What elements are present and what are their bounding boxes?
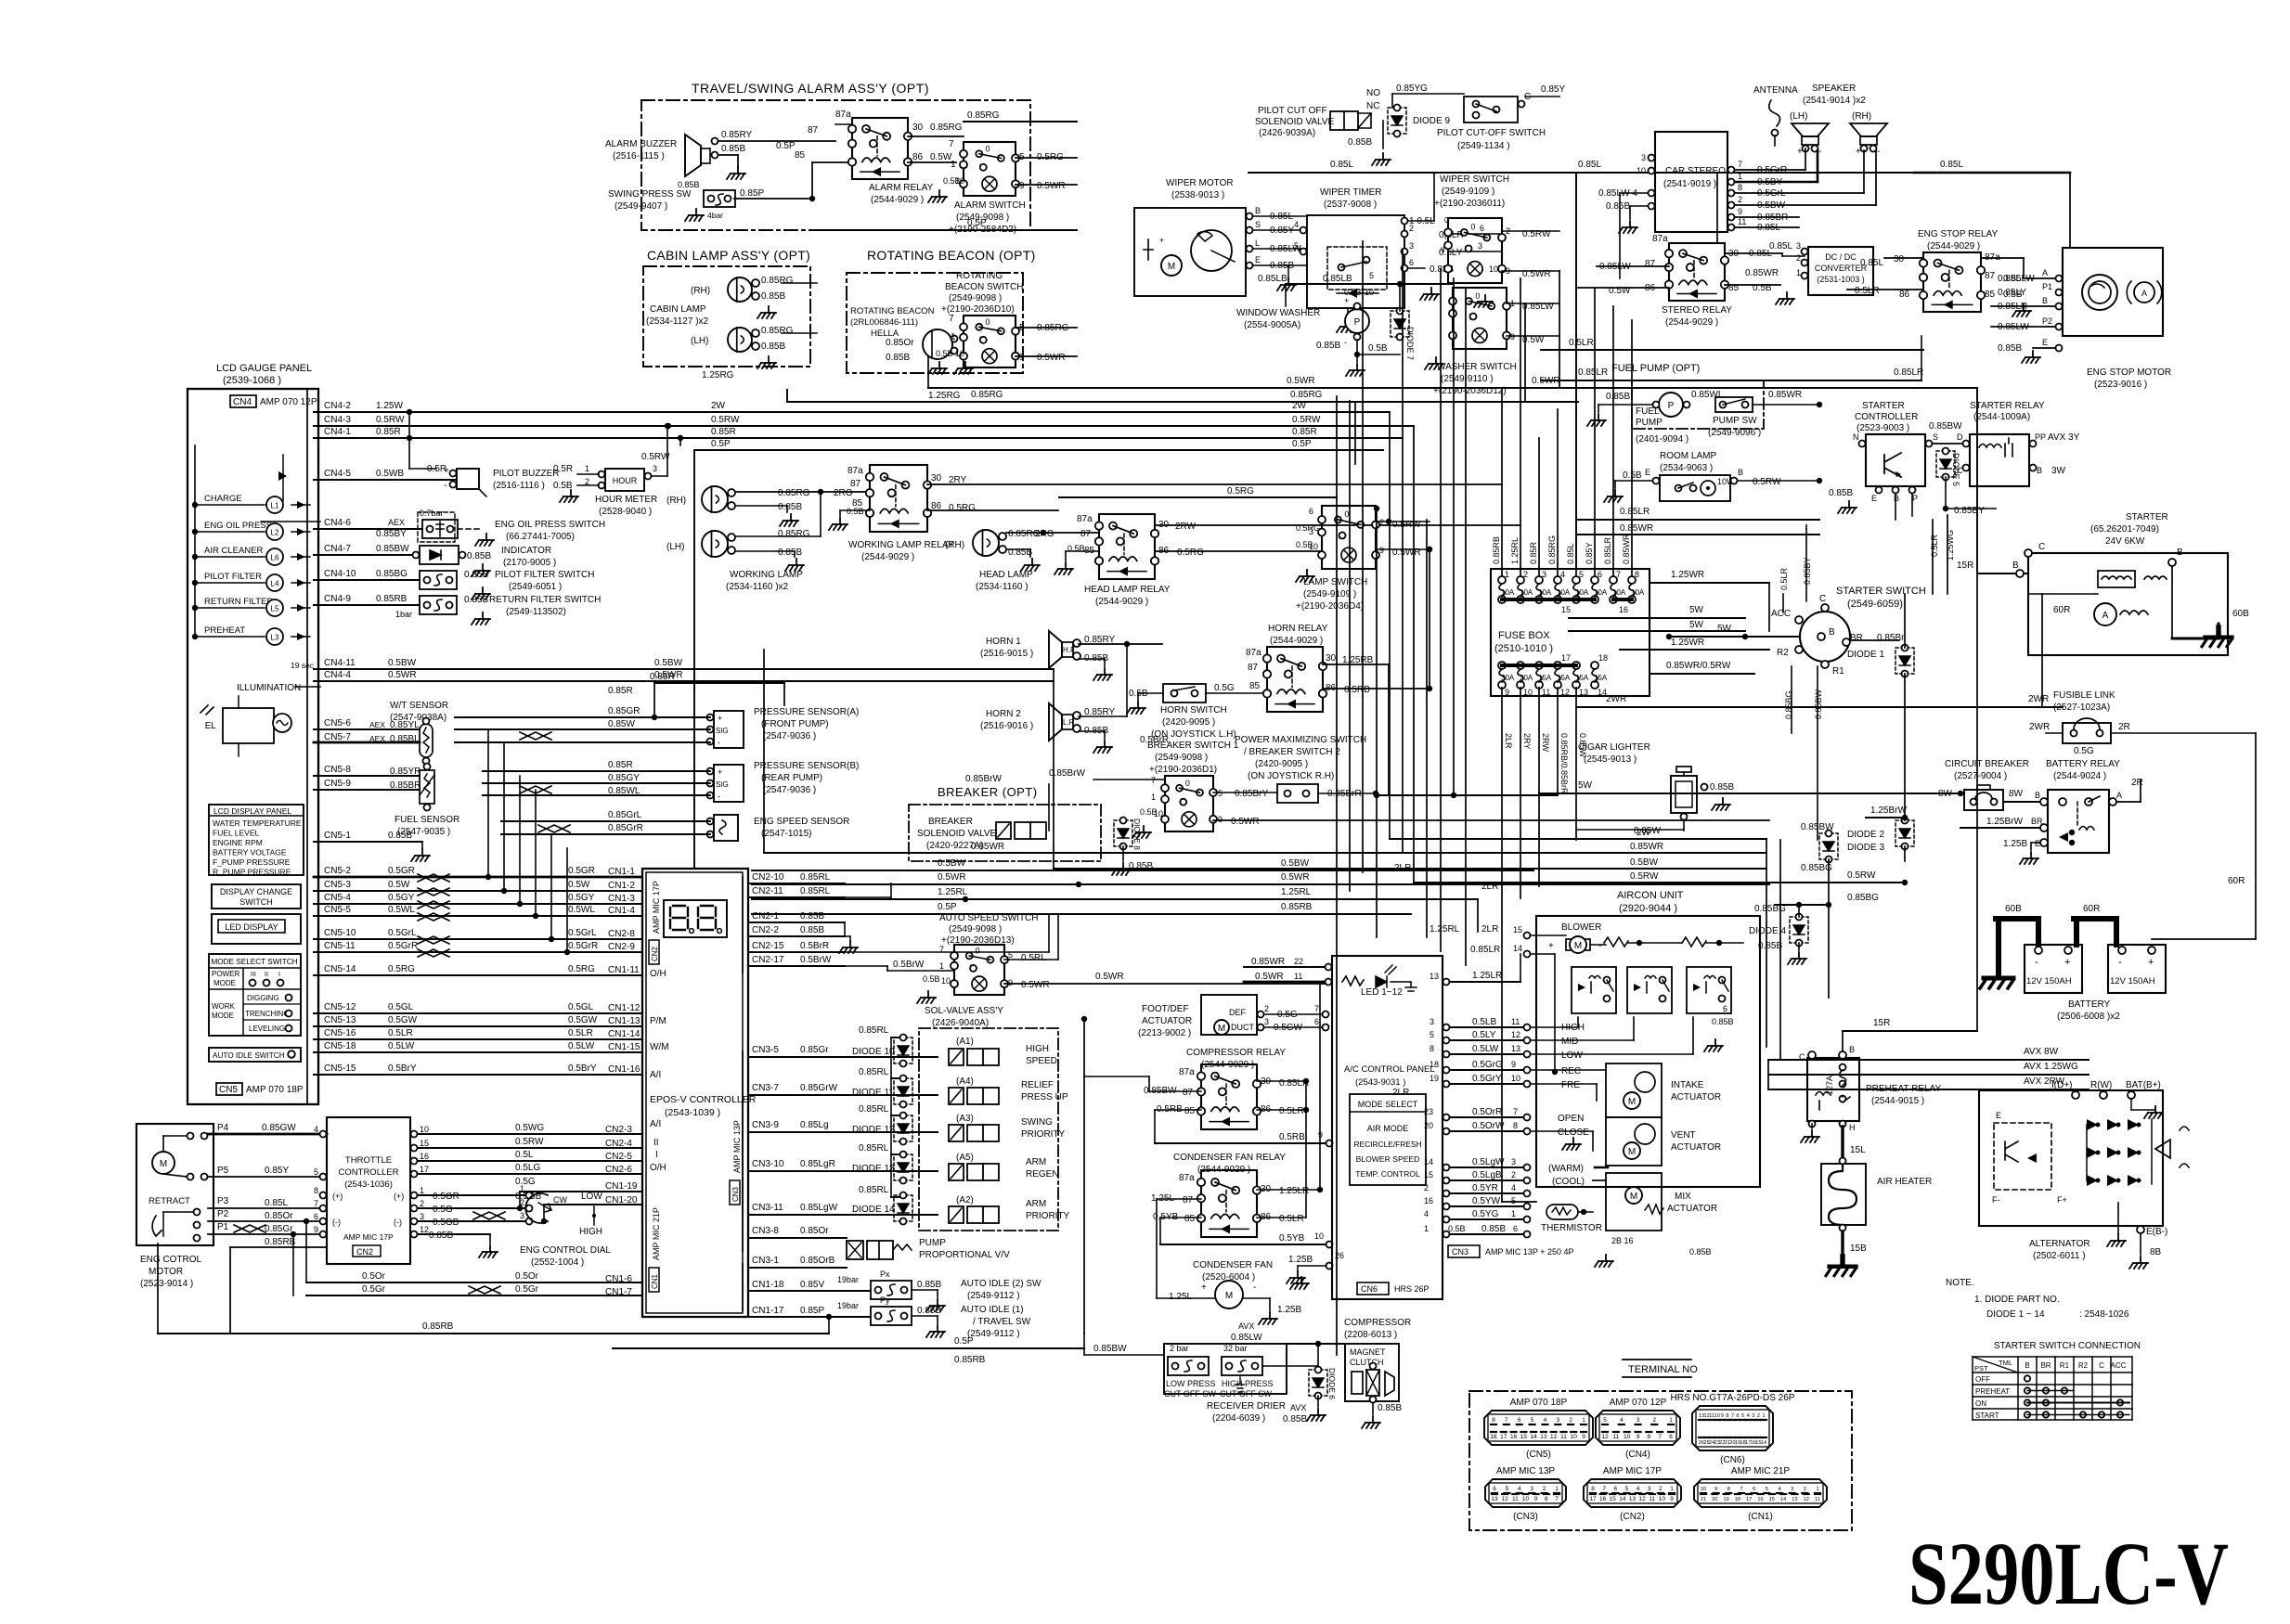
svg-text:CN1-2: CN1-2	[608, 881, 635, 891]
svg-text:17: 17	[420, 1165, 429, 1174]
svg-text:+: +	[1201, 1282, 1207, 1293]
svg-text:60R: 60R	[2053, 605, 2070, 615]
svg-text:0.85L: 0.85L	[1330, 160, 1353, 170]
svg-text:0.5P: 0.5P	[711, 439, 731, 449]
svg-text:16: 16	[1510, 1434, 1518, 1440]
svg-text:CN1-15: CN1-15	[608, 1042, 640, 1052]
svg-text:87a: 87a	[835, 110, 851, 120]
rotating beacon dashed box	[847, 273, 1023, 373]
svg-text:0.5P: 0.5P	[776, 141, 796, 151]
svg-text:CN3-8: CN3-8	[752, 1226, 779, 1236]
svg-text:EL: EL	[205, 721, 217, 731]
svg-text:0.85L: 0.85L	[1998, 274, 2021, 284]
svg-text:E: E	[1255, 255, 1261, 264]
wire 0.85WR/0.5RW	[1650, 673, 1754, 675]
svg-text:8: 8	[1430, 1044, 1434, 1053]
svg-text:(2523-9003 ): (2523-9003 )	[1857, 423, 1909, 433]
svg-text:0.85B: 0.85B	[917, 1280, 941, 1290]
svg-text:4: 4	[1620, 1417, 1624, 1424]
svg-text:HOUR METER: HOUR METER	[595, 495, 657, 505]
svg-text:CN2-1: CN2-1	[752, 911, 779, 922]
svg-text:3W: 3W	[2051, 466, 2066, 476]
wire CN4-5 0.5WB to pilot buzzer	[314, 479, 457, 481]
svg-text:8: 8	[1492, 1417, 1495, 1424]
svg-text:FRE: FRE	[1561, 1080, 1580, 1090]
svg-text:HRS NO.GT7A-26PD-DS 26P: HRS NO.GT7A-26PD-DS 26P	[1671, 1393, 1795, 1403]
svg-text:PRIORITY: PRIORITY	[1021, 1129, 1066, 1140]
svg-text:ROTATING BEACON: ROTATING BEACON	[850, 306, 935, 316]
svg-text:AIR CLEANER: AIR CLEANER	[204, 546, 263, 556]
svg-text:3: 3	[1542, 570, 1546, 579]
svg-text:E: E	[1645, 468, 1650, 477]
svg-text:0.85B: 0.85B	[886, 353, 910, 363]
svg-text:87: 87	[1080, 529, 1092, 539]
svg-text:0.85B: 0.85B	[1998, 343, 2022, 354]
svg-text:I(D+): I(D+)	[2051, 1080, 2073, 1090]
svg-text:0.85BY: 0.85BY	[376, 529, 407, 539]
svg-text:87: 87	[1985, 271, 1996, 281]
svg-text:HORN SWITCH: HORN SWITCH	[1160, 705, 1227, 715]
svg-text:0.85RG: 0.85RG	[761, 276, 794, 286]
svg-text:BR: BR	[2031, 817, 2043, 826]
svg-text:0.5G: 0.5G	[1214, 683, 1235, 693]
svg-text:19: 19	[1723, 1497, 1728, 1502]
eng oil press switch (66.27441-7005)	[314, 528, 422, 530]
svg-text:4bar: 4bar	[707, 211, 723, 220]
vertical wires from pressure sensors down	[487, 729, 489, 877]
svg-text:PRIORITY: PRIORITY	[1026, 1211, 1070, 1221]
svg-text:0.5BrW: 0.5BrW	[800, 955, 832, 965]
alternator top ground	[2144, 1106, 2163, 1118]
svg-text:P/M: P/M	[650, 1016, 666, 1026]
wire 60R from starter down	[2042, 704, 2070, 706]
EPOS right bracket verticals	[742, 877, 744, 973]
svg-text:2LR: 2LR	[1504, 733, 1513, 749]
svg-text:DC / DC: DC / DC	[1825, 252, 1857, 262]
intake actuator	[1606, 1063, 1662, 1117]
svg-text:0.85B: 0.85B	[800, 925, 824, 935]
svg-text:10A: 10A	[1557, 588, 1571, 597]
svg-text:2WR: 2WR	[1606, 694, 1626, 704]
svg-text:0.85GrW: 0.85GrW	[800, 1083, 838, 1093]
svg-text:10: 10	[1659, 1496, 1666, 1502]
svg-text:0.85Br: 0.85Br	[1877, 633, 1905, 643]
svg-text:7: 7	[1151, 776, 1156, 785]
svg-text:2LR: 2LR	[1481, 924, 1498, 934]
svg-text:3: 3	[1430, 1017, 1434, 1026]
wire 0.5RW right	[1818, 882, 1905, 883]
svg-text:VENT: VENT	[1671, 1130, 1696, 1141]
LCD gauge panel box (2539-1068)	[188, 389, 318, 1104]
svg-text:1.25W: 1.25W	[376, 401, 403, 411]
svg-text:PREHEAT RELAY: PREHEAT RELAY	[1866, 1084, 1941, 1094]
svg-text:1.25L: 1.25L	[1169, 1292, 1192, 1302]
svg-text:(WARM): (WARM)	[1548, 1164, 1584, 1174]
wires lamp switch to bundle	[1429, 549, 1430, 689]
svg-text:FUEL PUMP (OPT): FUEL PUMP (OPT)	[1611, 363, 1700, 374]
svg-text:0.5RB: 0.5RB	[1279, 1132, 1305, 1142]
svg-text:B: B	[2177, 548, 2183, 558]
svg-text:-: -	[1253, 1282, 1256, 1293]
svg-text:9: 9	[1510, 332, 1515, 342]
svg-text:0.85RL: 0.85RL	[800, 872, 831, 883]
svg-text:AEX: AEX	[388, 518, 405, 527]
svg-text:11: 11	[1815, 1497, 1820, 1502]
svg-text:NC: NC	[1366, 101, 1379, 111]
svg-text:SPEAKER: SPEAKER	[1812, 84, 1856, 94]
svg-text:COMPRESSOR: COMPRESSOR	[1344, 1318, 1411, 1328]
svg-text:ANTENNA: ANTENNA	[1753, 85, 1798, 96]
blower resistors	[1604, 937, 1628, 947]
svg-text:CN2-10: CN2-10	[752, 872, 784, 883]
svg-text:AEX: AEX	[369, 720, 385, 729]
svg-text:9: 9	[1511, 1060, 1516, 1069]
svg-text:0.85L: 0.85L	[1566, 543, 1575, 564]
svg-text:(2170-9005 ): (2170-9005 )	[503, 558, 556, 568]
LED display box	[212, 914, 301, 944]
svg-text:-: -	[444, 481, 446, 491]
svg-text:0.85WR/0.5RW: 0.85WR/0.5RW	[1666, 661, 1731, 671]
svg-text:(2549-9098 ): (2549-9098 )	[949, 293, 1002, 303]
svg-text:L: L	[1255, 238, 1260, 248]
svg-text:PUMP: PUMP	[1636, 418, 1663, 428]
svg-text:DIODE 9: DIODE 9	[1413, 116, 1450, 126]
svg-text:5: 5	[1369, 271, 1374, 280]
svg-text:0.5GR: 0.5GR	[568, 866, 595, 876]
svg-text:P: P	[1912, 494, 1918, 503]
svg-text:BR: BR	[2040, 1361, 2051, 1370]
svg-text:(2549-9098 ): (2549-9098 )	[949, 924, 1002, 934]
svg-text:1.25RL: 1.25RL	[1510, 537, 1520, 564]
svg-text:0.5G: 0.5G	[2074, 746, 2094, 756]
svg-text:0.85Or: 0.85Or	[886, 338, 914, 348]
svg-text:0.5LW: 0.5LW	[568, 1041, 595, 1051]
svg-text:85: 85	[1985, 290, 1996, 300]
svg-text:LCD DISPLAY PANEL: LCD DISPLAY PANEL	[213, 806, 291, 816]
wire 0.85RG top	[835, 123, 852, 125]
svg-text:ALARM BUZZER: ALARM BUZZER	[605, 139, 677, 149]
svg-text:9: 9	[1721, 1413, 1724, 1419]
svg-text:(2552-1004 ): (2552-1004 )	[531, 1257, 584, 1268]
svg-text:CN2-15: CN2-15	[752, 941, 784, 951]
svg-text:0.5LR: 0.5LR	[1279, 1214, 1304, 1224]
svg-text:ENG STOP RELAY: ENG STOP RELAY	[1918, 229, 1998, 239]
svg-text:0.85P: 0.85P	[740, 188, 764, 199]
fuse box input verticals with labels	[1501, 390, 1503, 576]
svg-text:10: 10	[1624, 1434, 1631, 1440]
svg-text:HORN 1: HORN 1	[986, 637, 1021, 647]
svg-text:0.85B: 0.85B	[1606, 201, 1630, 212]
vertical bundle right of fuse	[1477, 899, 1479, 932]
svg-text:SOLENOID VALVE: SOLENOID VALVE	[917, 829, 997, 839]
svg-text:POWER: POWER	[212, 970, 239, 978]
svg-text:0.85RG: 0.85RG	[778, 488, 810, 498]
svg-text:B: B	[1829, 627, 1835, 638]
svg-text:+: +	[444, 466, 449, 476]
svg-text:12: 12	[1502, 1496, 1509, 1502]
svg-text:0.85RG: 0.85RG	[930, 122, 963, 133]
svg-text:0.85BW: 0.85BW	[1801, 822, 1834, 832]
svg-text:6: 6	[1493, 1486, 1496, 1492]
svg-text:AMP 070 12P: AMP 070 12P	[260, 397, 317, 407]
svg-text:SIG: SIG	[716, 780, 729, 789]
svg-text:0.85B: 0.85B	[388, 831, 412, 841]
svg-text:1: 1	[1511, 1209, 1516, 1218]
svg-text:LEVELING: LEVELING	[249, 1025, 285, 1033]
svg-text:AUTO IDLE (1): AUTO IDLE (1)	[961, 1305, 1024, 1315]
svg-text:0.85BrW: 0.85BrW	[965, 774, 1002, 784]
wire CN4-3 0.5RW bus	[314, 425, 1414, 427]
fuse row 2 fuses 9-14	[1498, 662, 1506, 669]
wire CN4-11 0.5BW	[314, 668, 1054, 670]
svg-text:ACTUATOR: ACTUATOR	[1671, 1092, 1721, 1102]
EPOS-V controller box (2543-1039)	[642, 869, 748, 1317]
svg-text:DIODE 11: DIODE 11	[852, 1088, 894, 1098]
sol-valve assy dashed box	[919, 1028, 1058, 1231]
svg-text:SWING PRESS SW: SWING PRESS SW	[608, 189, 692, 200]
svg-text:19bar: 19bar	[837, 1301, 859, 1310]
svg-text:0.5GrL: 0.5GrL	[388, 928, 417, 938]
svg-text:60R: 60R	[2083, 904, 2100, 914]
svg-text:(A1): (A1)	[956, 1037, 974, 1047]
alternator (2502-6011)	[1979, 1090, 2163, 1226]
svg-text:HEAD LAMP: HEAD LAMP	[979, 570, 1033, 580]
svg-text:0: 0	[1444, 216, 1449, 225]
battery boxes 12V 150AH x2	[2025, 945, 2082, 993]
svg-text:(LH): (LH)	[666, 542, 684, 552]
wire bus 2W right segment	[1390, 838, 1766, 840]
svg-text:1.25RL: 1.25RL	[1281, 887, 1312, 897]
svg-text:7: 7	[1505, 1417, 1508, 1424]
svg-text:0.5WB: 0.5WB	[376, 469, 404, 479]
svg-text:0.5WR: 0.5WR	[1037, 353, 1066, 363]
svg-text:8: 8	[1738, 183, 1742, 192]
svg-text:C: C	[1819, 594, 1826, 604]
svg-text:15: 15	[1755, 1440, 1761, 1446]
svg-text:11: 11	[1294, 972, 1302, 981]
svg-text:B: B	[1738, 468, 1743, 477]
svg-text:LED DISPLAY: LED DISPLAY	[225, 922, 278, 932]
svg-text:4: 4	[1511, 1183, 1516, 1192]
svg-text:(2549-113502): (2549-113502)	[506, 607, 566, 617]
svg-text:CN1-13: CN1-13	[608, 1016, 640, 1026]
svg-text:(CN4): (CN4)	[1625, 1450, 1650, 1460]
svg-text:86: 86	[1899, 290, 1910, 300]
aircon relay 3	[1687, 967, 1731, 1013]
svg-text:0.5GY: 0.5GY	[388, 893, 415, 903]
wire CN5-1 0.85B to ground	[314, 841, 422, 843]
svg-text:SWITCH: SWITCH	[239, 897, 273, 907]
svg-text:(CN5): (CN5)	[1526, 1450, 1551, 1460]
svg-text:0.85LB: 0.85LB	[1323, 274, 1352, 284]
svg-text:18: 18	[1735, 1497, 1740, 1502]
svg-text:13: 13	[1491, 1496, 1498, 1502]
svg-text:0.5LW: 0.5LW	[1472, 1044, 1499, 1054]
svg-text:2: 2	[1804, 1487, 1806, 1492]
svg-text:ARM: ARM	[1026, 1199, 1046, 1209]
svg-text:+: +	[1797, 147, 1803, 157]
svg-text:CONDENSER FAN RELAY: CONDENSER FAN RELAY	[1173, 1153, 1286, 1163]
svg-text:15A: 15A	[1575, 674, 1589, 682]
svg-text:0.85B: 0.85B	[429, 1231, 453, 1241]
svg-text:2R: 2R	[2118, 722, 2130, 732]
svg-text:CIRCUIT BREAKER: CIRCUIT BREAKER	[1945, 759, 2029, 769]
svg-text:(COOL): (COOL)	[1552, 1177, 1585, 1187]
svg-text:0.5LR: 0.5LR	[1930, 534, 1939, 557]
svg-text:0.85BW: 0.85BW	[1929, 421, 1962, 432]
svg-text:0.5LR: 0.5LR	[1569, 338, 1594, 348]
svg-text:SOL-VALVE ASS'Y: SOL-VALVE ASS'Y	[925, 1006, 1003, 1016]
wire 1.25WR lower	[1620, 649, 1769, 651]
svg-text:CN5-10: CN5-10	[324, 928, 356, 938]
svg-text:E: E	[1996, 1111, 2001, 1120]
svg-text:18: 18	[1740, 1440, 1746, 1446]
svg-text:0.5B: 0.5B	[923, 974, 940, 984]
svg-text:0.5B: 0.5B	[1368, 343, 1388, 354]
svg-text:AMP MIC 21P: AMP MIC 21P	[652, 1207, 661, 1260]
svg-text:13: 13	[1430, 972, 1439, 981]
svg-text:14: 14	[1780, 1497, 1786, 1502]
svg-text:0.85RG: 0.85RG	[778, 529, 810, 539]
svg-text:Px: Px	[880, 1270, 890, 1279]
svg-text:(2213-9002 ): (2213-9002 )	[1138, 1028, 1191, 1038]
pump switch (2549-9096)	[1715, 397, 1753, 412]
svg-text:PROPORTIONAL V/V: PROPORTIONAL V/V	[919, 1250, 1010, 1260]
svg-text:0: 0	[1185, 779, 1190, 788]
svg-text:5W: 5W	[1578, 780, 1593, 791]
svg-text:CN5-16: CN5-16	[324, 1028, 356, 1038]
svg-text:0.85B: 0.85B	[1689, 1247, 1712, 1257]
svg-text:REC: REC	[1561, 1066, 1581, 1076]
svg-text:CN1-4: CN1-4	[608, 906, 635, 916]
svg-text:21: 21	[1725, 1440, 1730, 1446]
svg-text:0.85Y: 0.85Y	[265, 1166, 289, 1176]
svg-text:10A: 10A	[1594, 588, 1608, 597]
svg-text:CN2-4: CN2-4	[605, 1139, 632, 1149]
wire CN4-1 0.85R bus	[314, 437, 1402, 439]
svg-text:PREHEAT: PREHEAT	[1975, 1387, 2010, 1396]
svg-text:LAMP SWITCH: LAMP SWITCH	[1303, 577, 1367, 587]
svg-text:AMP 070 12P: AMP 070 12P	[1610, 1398, 1667, 1408]
svg-text:7: 7	[1658, 1434, 1662, 1440]
svg-text:0.5RW: 0.5RW	[1847, 870, 1876, 881]
svg-text:AMP MIC 17P: AMP MIC 17P	[343, 1232, 394, 1242]
EPOS seven segment display	[664, 900, 727, 937]
svg-text:1.25WR: 1.25WR	[1671, 570, 1704, 580]
svg-text:0.85P: 0.85P	[800, 1306, 824, 1316]
svg-text:AMP MIC 17P: AMP MIC 17P	[1603, 1466, 1662, 1476]
wire 5W long	[1539, 793, 1960, 794]
svg-text:11: 11	[1649, 1496, 1655, 1502]
svg-text:C: C	[2038, 542, 2045, 552]
svg-text:0.85BrY: 0.85BrY	[1235, 789, 1268, 799]
svg-text:3: 3	[1752, 1413, 1754, 1419]
svg-text:(2534-9063 ): (2534-9063 )	[1660, 463, 1713, 473]
svg-text:0.5LY: 0.5LY	[1472, 1030, 1496, 1040]
svg-text:10: 10	[1309, 542, 1318, 551]
svg-text:C: C	[2099, 1361, 2104, 1370]
wire 0.5P return	[613, 1347, 1084, 1349]
svg-text:0.5W: 0.5W	[930, 152, 952, 162]
svg-text:/ BREAKER SWITCH 2: / BREAKER SWITCH 2	[1244, 747, 1340, 757]
wire CN4-4 0.5WR	[314, 680, 1054, 682]
svg-text:9: 9	[1534, 1496, 1538, 1502]
svg-text:+: +	[718, 767, 722, 777]
svg-text:AVX: AVX	[1238, 1321, 1254, 1331]
svg-text:20: 20	[1729, 1440, 1735, 1446]
svg-text:0.85RB: 0.85RB	[422, 1321, 454, 1332]
svg-text:ENG COTROL: ENG COTROL	[140, 1255, 202, 1265]
svg-text:8B: 8B	[2150, 1247, 2162, 1257]
svg-text:0.5LB: 0.5LB	[1472, 1017, 1496, 1027]
svg-text:(2516-1115 ): (2516-1115 )	[613, 151, 665, 161]
svg-text:6: 6	[1314, 1017, 1319, 1026]
diode at top of lamp column	[278, 471, 287, 481]
svg-text:1: 1	[1582, 1417, 1585, 1424]
terminal table dashed box	[1469, 1391, 1852, 1530]
svg-text:0.85YR: 0.85YR	[390, 767, 420, 777]
A/C panel right pin 13	[1443, 979, 1450, 986]
svg-text:(REAR PUMP): (REAR PUMP)	[761, 773, 822, 783]
svg-text:0.5RW: 0.5RW	[711, 415, 740, 425]
svg-text:5: 5	[1531, 1417, 1534, 1424]
svg-text:0.85L: 0.85L	[265, 1198, 288, 1208]
alarm relay (2544-9029)	[852, 118, 908, 179]
svg-text:A: A	[2141, 289, 2147, 298]
svg-text:(FRONT PUMP): (FRONT PUMP)	[761, 719, 829, 729]
svg-text:L1: L1	[271, 502, 279, 510]
svg-text:(ON JOYSTICK R.H): (ON JOYSTICK R.H)	[1248, 771, 1334, 781]
svg-text:0.85RG: 0.85RG	[761, 326, 794, 336]
svg-text:CAR STEREO: CAR STEREO	[1665, 166, 1726, 176]
svg-text:PRESSURE SENSOR(B): PRESSURE SENSOR(B)	[754, 761, 859, 771]
svg-text:0.5Gr: 0.5Gr	[515, 1284, 539, 1295]
svg-text:87a: 87a	[1246, 648, 1261, 658]
svg-text:0.85B: 0.85B	[464, 570, 488, 580]
svg-text:1: 1	[1669, 1417, 1673, 1424]
svg-text:AMP 070 18P: AMP 070 18P	[1510, 1398, 1568, 1408]
svg-text:CN2-5: CN2-5	[605, 1152, 632, 1162]
diode 6 at compressor	[1309, 1370, 1327, 1396]
svg-text:(RH): (RH)	[1852, 111, 1871, 122]
svg-text:7: 7	[1513, 1107, 1518, 1116]
svg-text:0.85L: 0.85L	[1860, 258, 1883, 268]
svg-text:II: II	[1441, 246, 1444, 254]
svg-text:15R: 15R	[1873, 1018, 1890, 1028]
svg-text:CN5-1: CN5-1	[324, 831, 351, 841]
svg-text:9: 9	[1218, 815, 1223, 824]
svg-text:DIODE 1: DIODE 1	[1847, 650, 1884, 660]
svg-text:3: 3	[1648, 1486, 1651, 1492]
svg-text:(2549-9109 ): (2549-9109 )	[1303, 589, 1356, 599]
travel/swing alarm assy dashed box	[641, 100, 1030, 230]
svg-text:12V 150AH: 12V 150AH	[2110, 976, 2155, 986]
svg-text:0.5WR: 0.5WR	[1532, 376, 1560, 386]
svg-text:BLOWER: BLOWER	[1561, 922, 1601, 933]
svg-text:0.85BW: 0.85BW	[1814, 689, 1823, 719]
svg-text:1.25RL: 1.25RL	[938, 887, 968, 897]
svg-text:10: 10	[1511, 1074, 1520, 1083]
svg-text:I: I	[1464, 244, 1467, 253]
cabin lamp assy dashed box	[643, 266, 810, 367]
svg-text:(2549-9096 ): (2549-9096 )	[1708, 428, 1761, 438]
svg-text:CN4: CN4	[233, 397, 252, 407]
svg-text:0.5LgB: 0.5LgB	[1472, 1170, 1502, 1180]
svg-text:I: I	[979, 335, 982, 344]
svg-text:0.5LR: 0.5LR	[1779, 567, 1789, 590]
svg-text:17: 17	[1589, 1496, 1597, 1502]
svg-text:0.7bar: 0.7bar	[420, 509, 444, 518]
